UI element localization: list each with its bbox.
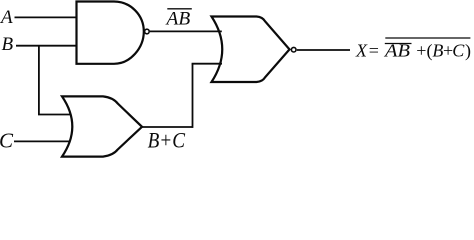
svg-text:AB: AB (164, 9, 190, 30)
svg-text:): ) (465, 41, 471, 62)
svg-text:X: X (355, 41, 368, 61)
output label outer overline (385, 37, 470, 39)
node B branch (38, 46, 40, 115)
wire OR output (142, 126, 193, 128)
svg-text:B: B (432, 41, 443, 61)
svg-text:+(: +( (416, 41, 432, 62)
output label inner overline (385, 43, 412, 45)
wire B to NAND input (16, 45, 77, 47)
svg-text:C: C (0, 129, 14, 153)
OR gate U2 (62, 96, 142, 156)
label AB-bar overline (167, 8, 192, 10)
NOR gate U3 (212, 17, 290, 83)
wire B branch to OR input (38, 114, 71, 116)
NAND output bubble (145, 29, 150, 34)
svg-text:=: = (369, 41, 379, 61)
svg-text:A: A (0, 7, 13, 28)
svg-text:C: C (452, 41, 465, 61)
wire C to OR input (14, 140, 69, 142)
wire A to NAND input (15, 16, 78, 18)
wire NAND output to NOR input (150, 30, 222, 32)
wire NOR output (297, 49, 350, 51)
svg-text:B+C: B+C (148, 128, 186, 153)
wire riser to NOR input (192, 63, 222, 65)
svg-text:B: B (2, 34, 14, 55)
NOR output bubble (291, 47, 296, 52)
wire riser OR to NOR (192, 64, 194, 128)
NAND gate U1 (77, 2, 144, 64)
